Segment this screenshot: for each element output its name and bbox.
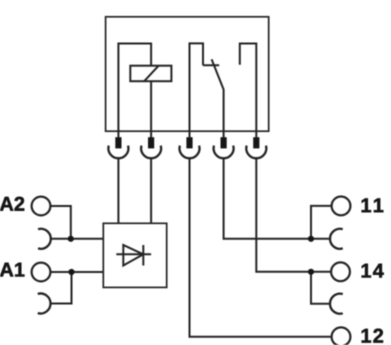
socket circle 11 [332,197,351,216]
wire: terminal 1 to suppressor box top [117,158,119,223]
plug contact A2 [38,229,51,249]
plug contact 11 [330,229,343,249]
terminal pin 4 [214,131,234,158]
wire: A1 plug up to node [51,272,72,304]
junction node 11 [308,236,314,242]
wire: coil bottom to pin 2 [150,81,152,131]
contact lever (common, pin 4) [212,59,224,131]
terminal pin 1 [108,131,128,158]
label 12 [362,329,383,343]
wire: terminal 3 down and right to socket 12 [190,158,331,336]
label 11 [362,198,384,212]
junction node 14 [308,269,314,275]
wire: A2 plug to suppressor box [51,238,104,240]
label A1 [0,263,24,277]
terminal pin 5 [246,131,266,158]
diode V1 [116,245,151,266]
wire: pin 1 up and over to coil top [118,44,151,132]
label A2 [0,197,24,211]
contact fixed NO from pin 5 [240,44,256,132]
junction node A2 [68,236,74,242]
relay module outline K1 [106,17,269,131]
wire: 11 circle left and down to node 11 [311,206,332,239]
label 14 [362,264,384,278]
wire: node 11 to plug contact 11 [311,238,330,240]
wire: 14 circle to node 14 [311,271,331,273]
wire: A1 circle to suppressor box [50,271,103,273]
junction node A1 [68,269,74,275]
contact fixed NC from pin 3 [190,43,204,131]
relay coil K1 [130,66,171,82]
socket circle A1 [32,263,51,282]
socket circle 14 [331,262,350,281]
suppressor module box [103,223,166,287]
plug contact A1 [38,294,51,314]
socket circle A2 [32,197,51,216]
plug contact 14 [330,294,343,314]
wire: terminal 5 down and right to node 14 [256,158,311,271]
terminal pin 3 [180,131,200,158]
contact NC bar [203,64,219,66]
wire: A2 circle right then down to node [50,206,70,239]
wire: terminal 2 to suppressor box top [150,158,152,223]
wire: node 14 down to plug contact 14 [311,272,330,304]
wire: terminal 4 down and right to node 11 [224,158,311,239]
terminal pin 2 [141,131,161,158]
socket circle 12 [332,327,351,345]
